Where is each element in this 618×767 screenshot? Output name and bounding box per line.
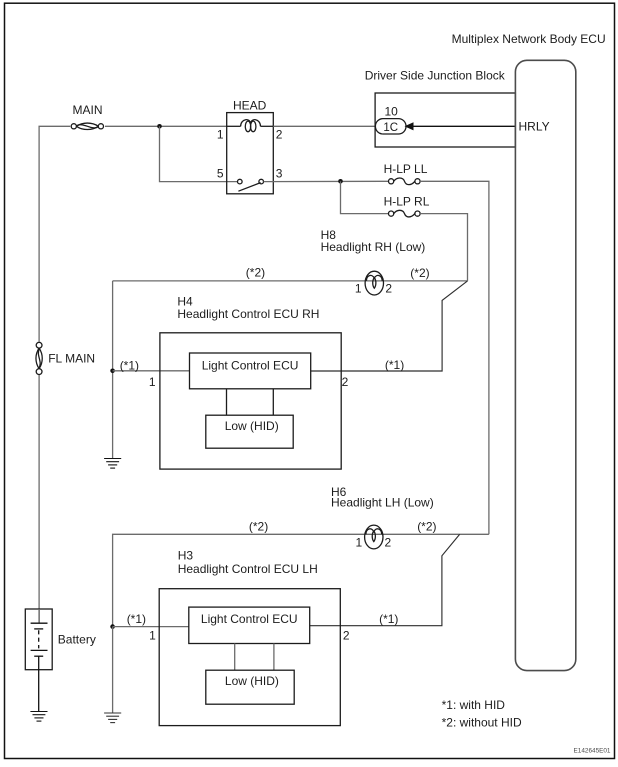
wire: H4 ECU to Low (HID) left connector [226, 389, 228, 415]
relay HEAD coil [227, 120, 274, 132]
svg-text:H-LP RL: H-LP RL [384, 195, 430, 209]
svg-text:(*2): (*2) [249, 520, 268, 534]
svg-text:Light Control ECU: Light Control ECU [201, 612, 298, 626]
svg-text:HRLY: HRLY [519, 120, 550, 134]
svg-text:Battery: Battery [58, 633, 96, 647]
wire: rail into battery positive plate [38, 609, 40, 623]
node: junction of MAIN feed and relay pin 5 branch [157, 124, 162, 129]
svg-text:H-LP LL: H-LP LL [384, 162, 428, 176]
wire: H4 ECU to Low (HID) right connector [272, 389, 274, 415]
wire: relay pin 2 to junction block cavity 1C [273, 125, 375, 127]
fuse H-LP RL [389, 210, 421, 217]
junction block box (Driver Side Junction Block) [375, 93, 515, 147]
wire: vertical from H3 pin 1 to ground [112, 627, 114, 713]
svg-text:Low (HID): Low (HID) [225, 674, 279, 688]
ground for H3 [104, 713, 121, 723]
svg-text:(*1): (*1) [120, 358, 139, 372]
ground for H4 [104, 459, 121, 469]
wire: battery rail up-left corner to MAIN fuse [39, 126, 70, 341]
ECU box Multiplex Network Body ECU [515, 60, 575, 670]
svg-text:HEAD: HEAD [233, 98, 267, 112]
wire: H4 pin 1 feed [113, 370, 190, 372]
wire: H3 pin 1 feed [113, 626, 189, 628]
svg-text:1C: 1C [383, 122, 398, 134]
svg-text:Headlight LH (Low): Headlight LH (Low) [331, 496, 434, 510]
svg-text:(*2): (*2) [417, 520, 436, 534]
ground for battery [30, 712, 47, 722]
svg-text:Headlight Control ECU LH: Headlight Control ECU LH [178, 562, 318, 576]
wire: H3 ECU to Low (HID) right connector [273, 644, 275, 671]
svg-text:1: 1 [217, 128, 224, 142]
ECU H4 Light Control ECU box [190, 353, 311, 389]
wire: H8 row diagonal branch down to H4 pin 2 [311, 281, 468, 371]
svg-text:(*2): (*2) [410, 266, 429, 280]
ECU H3 Light Control ECU box [189, 607, 310, 643]
wire: split down and right to H-LP RL fuse [341, 181, 389, 213]
svg-text:(*1): (*1) [385, 358, 404, 372]
svg-text:*1: with HID: *1: with HID [442, 698, 506, 712]
svg-text:1: 1 [149, 375, 156, 389]
svg-text:Low (HID): Low (HID) [225, 419, 279, 433]
wire: relay pin 3 to H-LP LL fuse [264, 180, 389, 182]
wire: H-LP LL fuse right, down to H6 bulb row [420, 181, 489, 534]
H4 Low (HID) box [206, 415, 293, 448]
H3 Low (HID) box [206, 670, 294, 704]
svg-text:H3: H3 [178, 549, 194, 563]
wire: H-LP RL fuse right, down to H8 bulb row [420, 214, 467, 281]
svg-text:E142645E01: E142645E01 [574, 748, 611, 755]
battery box [25, 609, 52, 670]
svg-text:2: 2 [385, 536, 392, 550]
arrow: HRLY output to cavity 1C [413, 125, 515, 127]
svg-text:*2: without HID: *2: without HID [442, 716, 522, 730]
fuse MAIN [71, 123, 103, 129]
svg-text:FL MAIN: FL MAIN [48, 351, 95, 365]
wire: H6 bulb row and drop to H3 pin 1 [113, 534, 489, 626]
relay HEAD box [227, 113, 274, 194]
svg-text:MAIN: MAIN [73, 103, 103, 117]
svg-text:(*1): (*1) [127, 612, 146, 626]
connector cavity 1C [375, 119, 406, 134]
svg-text:1: 1 [355, 281, 362, 295]
svg-text:(*2): (*2) [246, 265, 265, 279]
wire: vertical from H8 row through H4 pin 1 to ground [112, 281, 114, 459]
svg-text:(*1): (*1) [379, 612, 398, 626]
svg-text:2: 2 [385, 281, 392, 295]
wire: H3 ECU to Low (HID) left connector [234, 644, 236, 671]
bulb H8 Headlight RH (Low) [365, 271, 383, 295]
wire: MAIN fuse to relay pin 1 [105, 125, 227, 127]
svg-text:2: 2 [276, 128, 283, 142]
svg-text:Light Control ECU: Light Control ECU [202, 358, 299, 372]
battery cell plates [31, 623, 48, 711]
node: junction LL/RL split [338, 179, 343, 184]
node: junction at H4 pin 1 [110, 369, 115, 374]
bulb H6 Headlight LH (Low) [365, 525, 383, 549]
ECU H4 outer box [160, 333, 341, 469]
wire: H6 row diagonal branch down to H3 pin 2 [310, 534, 460, 625]
wire: left rail below FL MAIN down to battery [38, 375, 40, 624]
relay HEAD switch contact [238, 179, 264, 191]
svg-text:5: 5 [217, 167, 224, 181]
svg-text:2: 2 [343, 629, 350, 643]
fuse FL MAIN [36, 342, 42, 374]
svg-text:Headlight RH (Low): Headlight RH (Low) [321, 240, 426, 254]
wire: H8 bulb row [113, 280, 468, 282]
node: junction at H3 pin 1 [110, 624, 115, 629]
svg-text:10: 10 [385, 105, 399, 119]
svg-text:2: 2 [342, 375, 349, 389]
svg-text:1: 1 [356, 536, 363, 550]
svg-text:Multiplex Network Body ECU: Multiplex Network Body ECU [452, 32, 606, 46]
svg-text:1: 1 [149, 629, 156, 643]
wire: branch down and right to relay pin 5 [160, 126, 238, 181]
fuse H-LP LL [389, 178, 421, 185]
svg-text:3: 3 [276, 167, 283, 181]
svg-text:Driver Side Junction Block: Driver Side Junction Block [365, 69, 506, 83]
ECU H3 outer box [159, 589, 340, 726]
svg-text:Headlight Control ECU RH: Headlight Control ECU RH [177, 307, 319, 321]
